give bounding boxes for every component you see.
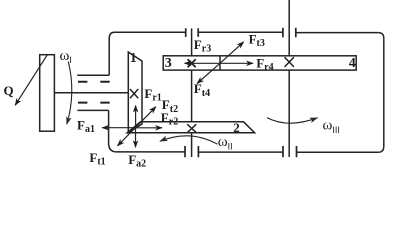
omega III rotation arrow <box>267 118 317 124</box>
force arrow Fr3 (mesh 3-4, points left) <box>185 62 220 64</box>
shaft III line segments <box>288 0 290 157</box>
svg-text:Ft1: Ft1 <box>89 150 105 168</box>
housing top wall line <box>115 31 379 33</box>
svg-text:4: 4 <box>349 56 356 71</box>
svg-text:1: 1 <box>130 51 137 66</box>
bearing hatch dash lower row (shaft I) <box>78 102 110 104</box>
force arrow Fr2 (mesh 1-2, points right) <box>136 127 163 129</box>
omega I rotation arrow <box>67 62 72 125</box>
housing bottom wall line <box>117 151 378 153</box>
housing bearing bracket lower (shaft I) <box>77 109 108 111</box>
force arrow Ft3 (mesh 3-4, points up-right) <box>220 42 244 63</box>
svg-text:2: 2 <box>233 120 240 135</box>
belt line with force Q arrow <box>15 55 47 105</box>
gear 2 (bevel wheel) outline <box>127 122 254 133</box>
svg-text:Ft4: Ft4 <box>194 81 210 99</box>
belt pulley rectangle <box>40 55 55 132</box>
force arrow Ft4 (mesh 3-4, points down-left) <box>197 63 220 83</box>
force arrow Fr4 (mesh 3-4, points right) <box>220 62 253 64</box>
bearing ticks shaft II top <box>186 28 199 37</box>
shaft I line <box>54 92 128 94</box>
force arrow Fa1 (mesh 1-2, points left) <box>102 127 135 129</box>
svg-text:ωII: ωII <box>218 134 233 151</box>
svg-text:Q: Q <box>4 83 14 98</box>
svg-text:3: 3 <box>165 56 172 71</box>
force arrow Ft1 (mesh 1-2, points down-left) <box>118 128 136 146</box>
force arrow Fa2 (mesh 1-2, points down) <box>135 128 137 148</box>
omega II rotation arrow <box>160 136 218 144</box>
force arrow Ft2 (mesh 1-2, points up-right) <box>136 107 156 128</box>
housing left wall lower <box>109 110 117 151</box>
gear 1 (bevel pinion) outline <box>128 52 142 133</box>
force arrow Fr1 (mesh 1-2, points up) <box>135 106 137 128</box>
gear3/gear4 mesh divider line <box>219 56 221 70</box>
svg-text:Fr1: Fr1 <box>144 86 161 104</box>
shaft II line segments <box>191 28 193 157</box>
bearing ticks shaft III bottom <box>283 146 297 157</box>
node x-mark gear 4 center <box>285 57 294 67</box>
node x-mark gear 2 center <box>187 124 196 133</box>
svg-text:Ft3: Ft3 <box>249 31 265 49</box>
gear 3 and gear 4 bar outline <box>163 56 356 70</box>
svg-text:ωI: ωI <box>60 48 72 65</box>
housing right wall <box>383 38 385 146</box>
housing bottom-right rounded corner <box>378 146 384 152</box>
svg-text:ωIII: ωIII <box>323 118 340 135</box>
bearing hatch dash upper row (shaft I) <box>78 81 110 83</box>
bearing ticks shaft II bottom <box>185 146 198 157</box>
node x-mark gear 3 center <box>188 59 196 67</box>
svg-text:Fa2: Fa2 <box>128 152 146 170</box>
housing bearing bracket upper (shaft I) <box>77 74 109 76</box>
bearing ticks shaft III top <box>283 28 296 38</box>
node x-mark gear 1 center <box>130 89 138 98</box>
svg-text:Fr4: Fr4 <box>256 56 273 74</box>
housing top-left rounded corner and left wall upper <box>109 32 114 75</box>
housing top-right rounded corner <box>378 33 384 39</box>
svg-text:Fa1: Fa1 <box>77 118 95 136</box>
svg-text:Fr3: Fr3 <box>194 37 211 55</box>
